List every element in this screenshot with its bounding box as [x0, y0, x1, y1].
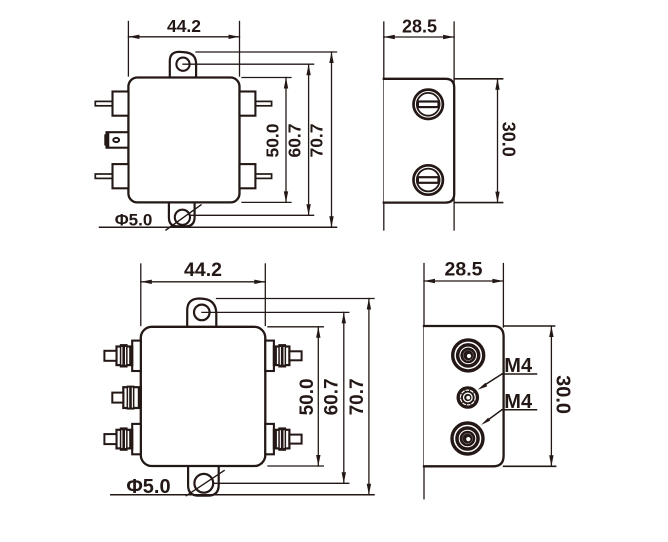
svg-text:60.7: 60.7	[285, 123, 305, 157]
leader dia 5.0 view A	[166, 205, 201, 230]
svg-text:44.2: 44.2	[184, 259, 222, 281]
dimension 30.0 view D	[550, 326, 552, 466]
extension lines 30.0 view D	[504, 325, 555, 327]
filter body B (side view)	[384, 79, 454, 203]
terminal quick-connect top-left A	[95, 101, 112, 105]
leader M4 lower view D	[502, 409, 537, 411]
extension line left view B	[383, 22, 385, 230]
svg-text:30.0: 30.0	[551, 375, 573, 414]
leader M4 upper view D	[502, 373, 537, 375]
svg-text:70.7: 70.7	[307, 123, 327, 157]
bottom tab hole C	[194, 474, 213, 493]
screw head 2 view B	[414, 165, 443, 194]
svg-text:30.0: 30.0	[499, 122, 519, 157]
svg-text:Φ5.0: Φ5.0	[126, 476, 170, 498]
ground terminal middle-left C	[123, 387, 141, 408]
dimension 60.7 view C	[343, 312, 345, 483]
svg-text:50.0: 50.0	[262, 123, 282, 157]
svg-text:60.7: 60.7	[322, 378, 343, 415]
bottom mounting tab A	[169, 200, 195, 226]
ground tab hole A	[113, 138, 119, 142]
svg-text:50.0: 50.0	[297, 378, 318, 415]
top tab hole C	[194, 305, 210, 321]
extension lines 30.0 view B	[454, 78, 502, 80]
dimension 28.5 view B	[384, 36, 454, 38]
leader dia 5.0 view C	[186, 471, 224, 496]
screw terminal top-right C	[265, 341, 274, 371]
dimension 50.0 view A	[285, 78, 287, 203]
svg-text:28.5: 28.5	[402, 17, 437, 37]
terminal stud M4 top view D	[453, 340, 484, 371]
dimension 70.7 view C	[368, 299, 370, 495]
dimension 70.7 view A	[331, 52, 333, 227]
top mounting tab A	[170, 52, 196, 80]
extension lines right side view C	[217, 298, 375, 300]
svg-text:Φ5.0: Φ5.0	[115, 211, 153, 230]
terminal quick-connect bottom-left A	[95, 174, 112, 178]
bottom tab hole A	[175, 210, 190, 225]
extension line right view D	[502, 264, 504, 328]
svg-text:44.2: 44.2	[167, 16, 201, 36]
dimension 60.7 view A	[308, 64, 310, 215]
top mounting tab C	[187, 299, 216, 331]
svg-text:28.5: 28.5	[445, 259, 483, 281]
svg-text:70.7: 70.7	[347, 378, 368, 415]
bottom mounting tab C	[188, 462, 219, 496]
screw terminal top-left C	[132, 341, 141, 371]
filter body C (front view, screw-terminal version)	[141, 327, 265, 466]
extension lines right side view A	[196, 51, 337, 53]
filter body A (front view, quick-connect version)	[128, 78, 239, 203]
screw terminal bottom-right C	[265, 424, 274, 454]
terminal quick-connect bottom-right A	[255, 174, 271, 178]
ground tab A (left middle)	[107, 132, 129, 148]
extension line right view B	[453, 22, 455, 230]
dimension 28.5 view D	[424, 280, 503, 282]
dimension 50.0 view C	[317, 327, 319, 466]
filter body D (side view, stud version)	[424, 326, 504, 466]
terminal stud M4 bottom view D	[452, 423, 483, 454]
screw terminal bottom-left C	[132, 424, 141, 454]
dimension 30.0 view B	[497, 79, 499, 203]
dimension 44.2 view A	[127, 22, 129, 77]
terminal quick-connect top-right A	[255, 101, 271, 105]
ground stud middle view D	[457, 386, 480, 409]
top tab hole A	[176, 58, 189, 71]
screw head 1 view B	[414, 90, 443, 119]
extension line left view D	[423, 264, 425, 499]
dimension 44.2 view C	[140, 264, 142, 326]
